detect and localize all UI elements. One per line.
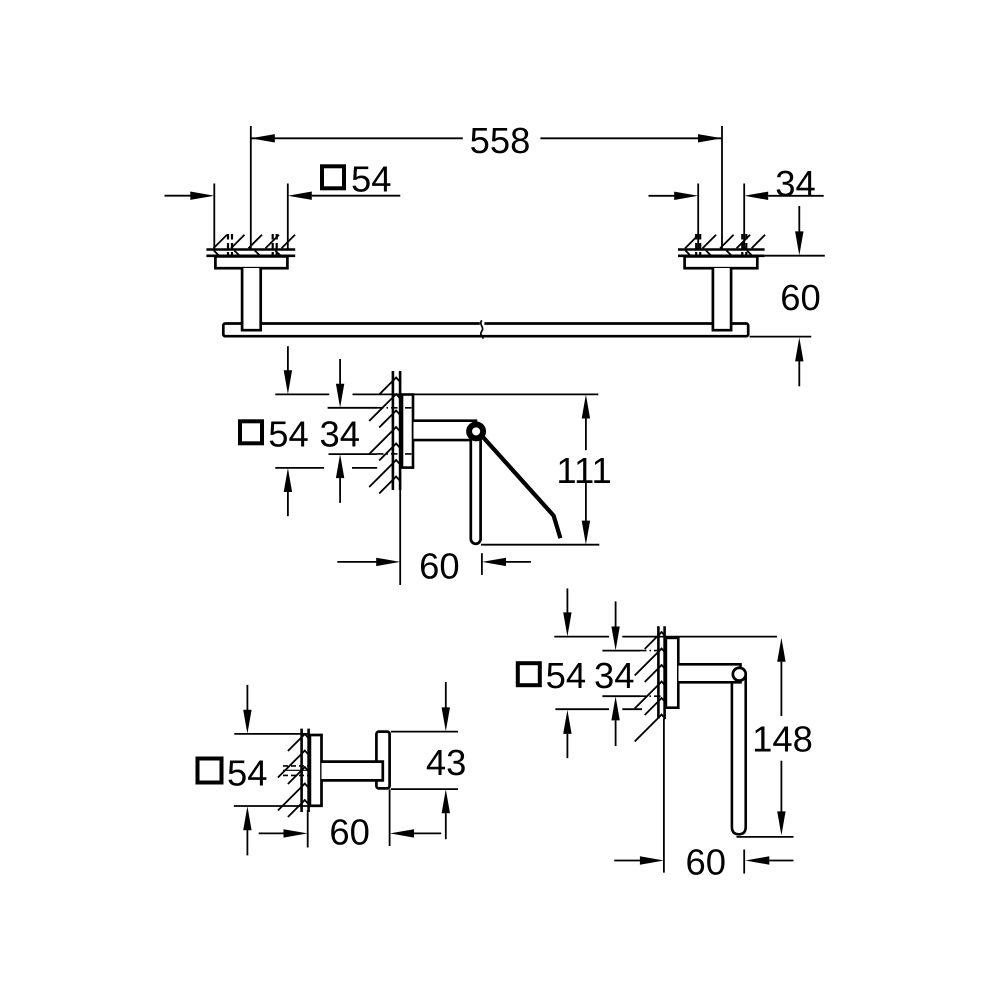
hook end piece	[376, 732, 389, 789]
wall hatching	[278, 733, 310, 817]
dim 558 arrow right	[698, 134, 722, 142]
dim 60 bar extension line	[743, 850, 745, 874]
svg-text:34: 34	[594, 655, 634, 696]
dim 43 bottom extension line	[391, 788, 458, 790]
dim 34 arrows vertical	[615, 601, 617, 626]
dim 558 extension line left	[250, 126, 252, 249]
dim 60 dimension line with arrows	[259, 832, 284, 834]
right post	[713, 268, 731, 330]
wall hatching	[635, 631, 666, 741]
towel bar drawing	[165, 120, 825, 386]
top extension line (plate top)	[275, 393, 329, 395]
dim 34 dimension line with tails	[649, 195, 675, 197]
svg-text:54: 54	[227, 752, 267, 793]
dim 111 bottom arrow (down)	[585, 482, 587, 521]
dim 558 extension line right	[721, 126, 723, 249]
wall hatching	[685, 234, 765, 257]
wall surface lines	[678, 248, 765, 251]
mounting plate	[402, 395, 413, 468]
bottom extension line (plate bottom)	[275, 467, 324, 469]
dim 60 wall extension line	[663, 719, 665, 873]
mounting plate	[666, 638, 678, 708]
bottom extension line (plate bottom)	[234, 805, 308, 807]
wall hatching	[214, 234, 296, 257]
hook stem	[322, 762, 383, 781]
top extension line (plate top)	[554, 636, 609, 638]
dim 54 extension lines (plate width)	[213, 184, 215, 250]
wall reference line right	[765, 255, 825, 257]
pivot ring	[469, 424, 483, 438]
dim 148 bottom arrow (down)	[780, 761, 782, 812]
holder bottom extension line	[481, 544, 599, 546]
dim 60 bar extension line	[481, 553, 483, 575]
pivot circle	[733, 668, 746, 681]
svg-text:558: 558	[470, 120, 531, 161]
dim 148 top arrow (up)	[777, 638, 785, 662]
screw centerline lower	[377, 453, 414, 455]
towel rail	[223, 324, 748, 337]
dim 34 arrows	[674, 192, 698, 200]
bar bottom extension line	[737, 836, 794, 838]
mounting plate	[310, 735, 322, 806]
wall hatching	[369, 377, 401, 494]
svg-text:148: 148	[752, 718, 813, 759]
screw centerline lower	[640, 695, 667, 697]
dim 60 wall extension line	[399, 490, 401, 585]
left post	[242, 268, 261, 330]
square symbol for 54	[518, 663, 540, 685]
svg-text:34: 34	[775, 163, 815, 204]
dim 43 top extension line	[391, 731, 458, 733]
dim 60 wall extension line	[307, 810, 309, 848]
dim 43 arrows vertical	[445, 682, 447, 708]
wall reference arrow (down)	[798, 206, 800, 232]
wall surface lines	[392, 371, 395, 490]
rail break symbol	[480, 322, 485, 326]
svg-text:60: 60	[686, 841, 726, 882]
dim 558 dimension line	[251, 137, 463, 139]
dim 34 extension lines	[602, 650, 640, 652]
svg-text:54: 54	[268, 413, 308, 454]
dim 60 dimension line with arrows	[614, 860, 640, 862]
svg-text:111: 111	[556, 450, 611, 491]
svg-text:54: 54	[351, 159, 391, 200]
square symbol for 54	[322, 166, 344, 188]
screw centerline upper	[640, 650, 667, 652]
dim 111 top arrow (up)	[582, 395, 590, 419]
holder arm	[679, 664, 741, 682]
wall surface lines	[300, 729, 303, 812]
dim 558 arrow left	[251, 134, 275, 142]
screw centerline upper	[377, 407, 414, 409]
square symbol for 54	[240, 421, 262, 443]
dim 60 end extension line	[389, 789, 391, 846]
dim 34 arrows vertical	[339, 359, 341, 384]
dim 54 arrows vertical	[566, 588, 568, 612]
dim 34 extension lines (screw spacing)	[697, 184, 699, 250]
roll holder bar	[471, 431, 481, 543]
flap (spring cover)	[479, 433, 560, 539]
svg-text:60: 60	[780, 277, 820, 318]
svg-text:43: 43	[426, 742, 466, 783]
svg-text:60: 60	[419, 545, 459, 586]
bottom extension line (plate bottom)	[555, 708, 609, 710]
dim 60 dimension line with arrows	[337, 561, 376, 563]
svg-text:34: 34	[320, 413, 360, 454]
holder arm	[414, 421, 477, 440]
wall surface lines	[657, 626, 660, 718]
robe hook drawing	[198, 682, 467, 856]
right mounting plate	[685, 256, 758, 268]
screw centerline marks	[283, 765, 309, 767]
wall surface lines	[206, 248, 295, 251]
roll holder bar	[732, 676, 746, 834]
dim 54 arrows vertical	[287, 346, 289, 370]
dim 60 arrow (up)	[798, 361, 800, 386]
dim 54 arrows	[190, 192, 214, 200]
dim 54 arrows vertical	[246, 685, 248, 710]
svg-text:54: 54	[546, 655, 586, 696]
svg-text:60: 60	[329, 812, 369, 853]
rail bottom extension line	[750, 336, 812, 338]
left mounting plate	[215, 256, 287, 268]
dim 34 extension lines	[328, 407, 377, 409]
spare paper holder drawing	[518, 588, 813, 882]
square symbol for 54	[198, 759, 222, 783]
dim 54 dimension line with tails	[165, 195, 191, 197]
paper holder drawing	[240, 346, 612, 586]
top extension line (plate top)	[234, 733, 308, 735]
